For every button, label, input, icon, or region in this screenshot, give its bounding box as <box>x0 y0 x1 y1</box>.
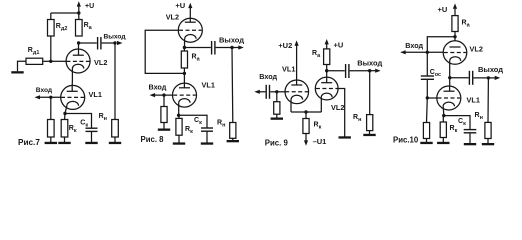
tube VL2 (Fig.9) <box>315 71 338 100</box>
svg-text:Rк: Rк <box>185 126 193 135</box>
svg-text:Rд1: Rд1 <box>28 47 40 56</box>
wire VL2 cathode lead <box>184 39 186 48</box>
wire Ra bottom lead (Fig.9) <box>326 65 328 71</box>
svg-text:Выход: Выход <box>357 58 382 67</box>
resistor Ra (Fig.7) <box>76 20 83 37</box>
wire input node down to grid resistor <box>50 97 52 119</box>
node input junction (Fig.7) <box>49 96 52 99</box>
wire output node down to Rn (Fig.10) <box>487 78 489 123</box>
wire cathode to Rk <box>64 114 66 120</box>
power +U arrow (Fig.8) <box>188 3 192 19</box>
power +U2 arrow (Fig.9) <box>295 40 299 80</box>
svg-text:Rд2: Rд2 <box>56 23 68 32</box>
tube VL1 (Fig.8) <box>173 83 197 107</box>
resistor Ra (Fig.10) <box>452 16 458 32</box>
capacitor Coc (Fig.10) <box>421 76 434 79</box>
output arrow (Fig.9) <box>375 69 381 73</box>
svg-text:Вход: Вход <box>36 87 53 94</box>
svg-text:+U: +U <box>175 1 185 10</box>
ground at Ck (Fig.7) <box>85 142 97 144</box>
wire input <box>39 96 61 98</box>
node output (Fig.10) <box>487 76 490 79</box>
wire VL1 cathode lead (Fig.8) <box>178 103 180 116</box>
wire input (Fig.8) <box>154 94 173 96</box>
wire VL2 cathode lead (Fig.9) <box>320 97 322 112</box>
svg-text:–U1: –U1 <box>313 137 327 146</box>
wire Ck bottom lead (Fig.8) <box>206 131 208 142</box>
wire grid leak bottom lead (Fig.9) <box>276 114 278 118</box>
svg-text:Вход: Вход <box>405 41 423 50</box>
node output (Fig.9) <box>368 69 371 72</box>
resistor grid leak (Fig.9) <box>274 102 280 115</box>
wire cap to output node <box>102 42 116 44</box>
output arrow (Fig.10) <box>495 76 501 80</box>
node VL2 cathode / output (Fig.10) <box>448 76 451 79</box>
ground at Rd1 <box>11 71 23 73</box>
tube VL1 (Fig.7) <box>61 85 85 109</box>
svg-text:+U: +U <box>334 41 344 50</box>
ground at Rn (Fig.8) <box>227 140 239 142</box>
wire cathode junction to Ck <box>65 114 92 129</box>
svg-text:VL1: VL1 <box>282 65 295 74</box>
wire Rd1 right lead <box>43 60 51 62</box>
resistor Ra (Fig.9) <box>324 49 330 65</box>
ground at Rk (Fig.8) <box>173 142 185 144</box>
wire Rd1 left lead <box>18 61 27 71</box>
wire VL1 cathode lead <box>65 106 67 114</box>
wire VL1 grid lead (Fig.10) <box>427 97 437 99</box>
ground at Ck (Fig.8) <box>201 142 213 144</box>
wire cap to output node (Fig.10) <box>473 77 489 79</box>
svg-text:Вход: Вход <box>259 72 277 81</box>
wire Rk bottom lead <box>64 137 66 142</box>
wire Coc to VL1 grid node (Fig.10) <box>426 79 428 98</box>
wire Ck bottom lead <box>91 131 93 142</box>
wire cathode junction to Ck (Fig.10) <box>444 116 470 130</box>
wire VL2 grid feedback <box>145 30 184 73</box>
wire grid leak bottom lead (Fig.8) <box>163 123 165 129</box>
wire Ra bottom lead <box>183 68 185 73</box>
resistor Rk (Fig.9) <box>303 119 309 134</box>
node top rail / Ra top (Fig.7) <box>77 11 80 14</box>
wire Rn bottom lead <box>114 137 116 142</box>
wire grid node down to grid resistor (Fig.10) <box>426 98 429 123</box>
resistor Rn (Fig.9) <box>367 115 373 131</box>
svg-text:+U: +U <box>85 3 94 10</box>
power +U arrow (Fig.10) <box>453 3 457 15</box>
svg-text:VL2: VL2 <box>94 58 107 67</box>
node VL1 grid junction (Fig.10) <box>426 96 429 99</box>
resistor grid leak (Fig.7) <box>48 120 55 138</box>
wire VL2 grid lead <box>51 60 67 62</box>
svg-text:VL1: VL1 <box>202 81 215 90</box>
wire cathode to Rk (Fig.8) <box>178 115 180 118</box>
resistor Rk (Fig.8) <box>176 118 182 135</box>
svg-text:Рис. 9: Рис. 9 <box>265 138 289 147</box>
tube VL2 (Fig.8) <box>178 18 202 43</box>
svg-text:Rк: Rк <box>69 125 77 134</box>
svg-text:Rа: Rа <box>192 54 201 63</box>
ground at VL2 grid (Fig.9) <box>339 136 351 138</box>
node cathode junction (Fig.8) <box>177 114 180 117</box>
svg-text:Rн: Rн <box>217 120 225 129</box>
svg-text:Cк: Cк <box>194 117 202 126</box>
svg-text:VL2: VL2 <box>166 13 179 22</box>
wire cathode to Rk (Fig.10) <box>442 116 444 122</box>
wire VL1 cathode lead (Fig.10) <box>442 106 445 115</box>
resistor Rk (Fig.7) <box>61 120 68 138</box>
power +U arrow (Fig.7) <box>77 1 81 13</box>
wire Rd2 top lead <box>50 13 52 20</box>
resistor Rd2 <box>48 20 55 37</box>
ground at Rk (Fig.7) <box>58 142 70 144</box>
wire Ra top lead (Fig.8) <box>183 48 185 52</box>
node input junction (Fig.10) <box>426 51 429 54</box>
wire VL1 cathode lead (Fig.9) <box>290 100 292 112</box>
svg-text:Рис.10: Рис.10 <box>393 136 419 145</box>
capacitor input (Fig.9) <box>266 85 269 99</box>
svg-text:Rа: Rа <box>312 50 321 59</box>
svg-text:Рис. 8: Рис. 8 <box>141 135 165 144</box>
wire cap to output node (Fig.8) <box>216 47 233 49</box>
node VL2 anode (Fig.10) <box>453 35 456 38</box>
ground at Rn (Fig.7) <box>109 142 121 144</box>
output arrow (Fig.8) <box>238 45 244 49</box>
svg-text:Cк: Cк <box>80 120 88 129</box>
ground at grid leak (Fig.9) <box>271 118 283 120</box>
capacitor output (Fig.10) <box>469 71 472 85</box>
node output (Fig.7) <box>113 41 116 44</box>
wire VL2 grid to ground (Fig.9) <box>338 89 345 137</box>
wire cathode to output cap <box>184 47 210 49</box>
node VL2 grid junction <box>49 60 52 63</box>
svg-text:+U2: +U2 <box>278 41 292 50</box>
svg-text:Rн: Rн <box>99 113 107 122</box>
capacitor output (Fig.8) <box>212 41 215 55</box>
node cathode junction (Fig.9) <box>304 110 307 113</box>
wire cathode junction to Rk (Fig.9) <box>305 112 307 119</box>
input arrow (Fig.10) <box>400 50 406 54</box>
wire VL1 anode lead (Fig.8) <box>183 73 185 87</box>
svg-text:Rа: Rа <box>84 22 93 31</box>
node output (Fig.8) <box>230 46 233 49</box>
wire output node down to Rn (Fig.8) <box>231 48 234 123</box>
wire to output arrow (Fig.9) <box>370 70 376 72</box>
wire Rn bottom lead (Fig.8) <box>232 138 234 140</box>
node VL1 grid junction (Fig.9) <box>275 90 278 93</box>
wire VL2 cathode to VL1 anode <box>71 69 73 92</box>
node cathode junction (Fig.7) <box>63 112 66 115</box>
wire output node down to Rn <box>114 43 116 120</box>
ground at grid leak (Fig.8) <box>158 129 170 131</box>
input arrow (Fig.8) <box>150 93 156 97</box>
power -U1 arrow down (Fig.9) <box>304 134 308 146</box>
svg-text:Rк: Rк <box>450 125 458 134</box>
svg-text:Rн: Rн <box>475 112 483 121</box>
power +U arrow (Fig.9) <box>325 39 329 49</box>
svg-text:VL1: VL1 <box>89 90 102 99</box>
resistor grid leak (Fig.10) <box>423 123 429 139</box>
wire cap to output node (Fig.9) <box>350 70 370 72</box>
wire Rn bottom lead (Fig.9) <box>369 131 371 134</box>
capacitor Ck (Fig.7) <box>86 128 98 131</box>
wire anode to output cap (Fig.9) <box>327 70 345 72</box>
capacitor output (Fig.7) <box>98 37 101 50</box>
resistor Rn (Fig.8) <box>230 123 236 139</box>
resistor grid leak (Fig.8) <box>161 107 167 123</box>
input arrow (Fig.7) <box>35 95 41 99</box>
wire VL2 cathode lead (Fig.10) <box>449 61 451 78</box>
wire Rk bottom lead (Fig.10) <box>442 138 444 143</box>
svg-text:VL1: VL1 <box>467 96 480 105</box>
svg-text:Rк: Rк <box>314 122 322 131</box>
ground at grid leak (Fig.7) <box>45 142 57 144</box>
ground at Rn (Fig.9) <box>363 134 375 136</box>
wire cap to grid node (Fig.9) <box>270 91 285 93</box>
svg-text:+U: +U <box>438 5 448 14</box>
wire cathode to output cap (Fig.10) <box>450 77 469 79</box>
svg-text:VL2: VL2 <box>331 103 344 112</box>
wire grid node down to grid resistor (Fig.9) <box>276 92 278 102</box>
wire Rn bottom lead (Fig.10) <box>487 139 489 144</box>
tube VL1 (Fig.10) <box>437 86 461 110</box>
ground at Rn (Fig.10) <box>482 143 494 145</box>
capacitor Ck (Fig.10) <box>464 130 477 133</box>
svg-text:Выход: Выход <box>478 65 503 74</box>
ground at grid leak (Fig.10) <box>420 142 432 144</box>
resistor Rk (Fig.10) <box>440 122 446 138</box>
wire Ck bottom lead (Fig.10) <box>469 133 471 143</box>
tube VL2 (Fig.7) <box>66 43 90 73</box>
wire Rk bottom lead (Fig.8) <box>178 135 180 142</box>
node VL2 anode (Fig.9) <box>325 69 328 72</box>
ground at Rk (Fig.10) <box>437 142 449 144</box>
tube VL1 (Fig.9) <box>285 80 309 104</box>
capacitor output (Fig.9) <box>346 64 349 78</box>
resistor Rn (Fig.10) <box>485 122 491 138</box>
resistor Rn (Fig.7) <box>112 120 119 138</box>
svg-text:Rн: Rн <box>353 114 361 123</box>
ground at Ck (Fig.10) <box>464 143 476 145</box>
output arrow (Fig.7) <box>117 41 123 45</box>
wire Ra top lead <box>78 13 80 20</box>
tube VL2 (Fig.10) <box>443 41 467 65</box>
wire input to cap (Fig.9) <box>259 91 265 93</box>
input arrow (Fig.9) <box>254 90 259 94</box>
svg-text:Rа: Rа <box>462 20 471 29</box>
svg-text:Cк: Cк <box>458 118 466 127</box>
wire top rail Fig.7 <box>51 12 79 14</box>
wire grid leak bottom lead (Fig.10) <box>426 139 428 143</box>
wire grid leak bottom lead <box>50 137 52 142</box>
wire VL1 anode lead (Fig.10) <box>449 78 451 87</box>
node input junction (Fig.8) <box>162 93 165 96</box>
wire to output arrow (Fig.10) <box>488 77 495 79</box>
svg-text:VL2: VL2 <box>470 45 483 54</box>
wire anode to output cap <box>79 42 97 44</box>
wire cathode junction to Ck (Fig.8) <box>179 115 207 128</box>
wire to output arrow <box>232 47 239 49</box>
wire Coc column (Fig.10) <box>426 52 428 76</box>
svg-text:Выход: Выход <box>104 34 127 41</box>
wire Rd2 bottom lead to grid node <box>50 36 52 61</box>
node cathode junction (Fig.10) <box>442 114 445 117</box>
node VL2 cathode / output (Fig.8) <box>183 46 186 49</box>
wire Ra bottom lead (Fig.10) <box>454 32 456 42</box>
node Ra bottom / VL1 anode (Fig.8) <box>183 72 186 75</box>
svg-text:Рис.7: Рис.7 <box>18 138 40 147</box>
wire common cathode rail (Fig.9) <box>291 111 321 113</box>
wire input node down to grid resistor (Fig.8) <box>163 95 165 106</box>
resistor Ra (Fig.8) <box>181 51 187 68</box>
wire anode to feedback column (Fig.10) <box>427 37 455 53</box>
node VL2 anode / output (Fig.7) <box>77 41 80 44</box>
wire output node down to Rn (Fig.9) <box>369 71 371 115</box>
capacitor Ck (Fig.8) <box>201 128 213 131</box>
svg-text:Вход: Вход <box>149 82 167 91</box>
resistor Rd1 <box>26 58 43 64</box>
svg-text:Выход: Выход <box>219 36 244 45</box>
wire input (Fig.10) <box>405 51 444 53</box>
